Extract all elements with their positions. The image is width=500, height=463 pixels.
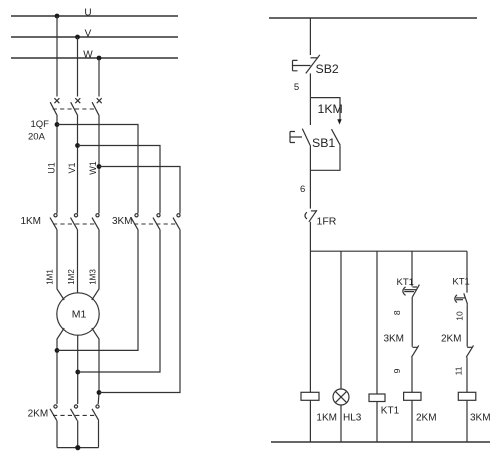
node motor lead 1 bbox=[55, 348, 60, 353]
node U tap bbox=[55, 14, 60, 19]
svg-text:10: 10 bbox=[454, 311, 464, 321]
breaker 1QF pole 3 bbox=[92, 98, 102, 116]
wire W drop bbox=[98, 58, 100, 97]
svg-text:5: 5 bbox=[294, 82, 299, 93]
breaker 1QF pole 2 bbox=[71, 98, 81, 116]
wire KT1 branch bbox=[376, 251, 378, 394]
svg-text:SB1: SB1 bbox=[312, 136, 335, 150]
node V tap bbox=[75, 35, 80, 40]
control bus bottom bbox=[271, 441, 490, 443]
wire motor to 2KM pole1 bbox=[57, 328, 64, 404]
svg-text:U: U bbox=[84, 8, 91, 19]
svg-text:W: W bbox=[83, 50, 93, 61]
contactor 1KM pole 1 bbox=[50, 214, 57, 230]
svg-text:1M1: 1M1 bbox=[46, 269, 55, 285]
wire 1KM pole2 to motor bbox=[77, 229, 79, 292]
motor M1 bbox=[57, 293, 99, 335]
contactor 1KM linkage bbox=[53, 223, 96, 225]
wire 2KM pole2 down bbox=[77, 421, 79, 448]
wire 2KM pole3 down bbox=[98, 421, 100, 448]
node U1 bbox=[55, 122, 60, 127]
contactor 3KM linkage bbox=[134, 223, 177, 225]
button SB1 (NO start) bbox=[290, 98, 311, 147]
wire 2KM branch top bbox=[411, 251, 413, 286]
svg-text:2KM: 2KM bbox=[441, 334, 462, 345]
svg-text:V: V bbox=[85, 29, 92, 40]
button SB2 (NC stop) bbox=[293, 55, 320, 74]
relay contact 1FR (NC) bbox=[305, 210, 317, 222]
contactor 2KM pole 2 bbox=[71, 405, 78, 421]
svg-text:KT1: KT1 bbox=[397, 277, 414, 288]
wire 3KM pole1 return bbox=[57, 229, 138, 350]
lamp HL3 bbox=[333, 389, 349, 405]
timer contact KT1 (delayed close NO) bbox=[455, 293, 468, 304]
wire motor to 2KM pole2 bbox=[77, 335, 79, 404]
contactor 3KM pole 2 bbox=[153, 214, 160, 230]
svg-text:1KM: 1KM bbox=[20, 216, 41, 227]
svg-text:1M3: 1M3 bbox=[89, 269, 98, 285]
control bus top bbox=[269, 17, 477, 19]
star point junction bbox=[75, 445, 80, 450]
contactor 3KM pole 3 bbox=[173, 214, 180, 230]
svg-text:V1: V1 bbox=[67, 162, 77, 173]
wire V1 segment bbox=[77, 116, 79, 214]
wire 9 segment bbox=[411, 357, 413, 392]
wire KT1 coil to bus bbox=[376, 402, 378, 443]
svg-text:M1: M1 bbox=[72, 309, 87, 321]
wire V1 branch to 3KM pole2 bbox=[78, 146, 161, 214]
wire 1FR down bbox=[309, 222, 311, 392]
wire 3KM pole2 return bbox=[78, 229, 160, 372]
wire 8 segment bbox=[411, 297, 413, 347]
svg-text:1FR: 1FR bbox=[317, 215, 337, 227]
svg-text:W1: W1 bbox=[88, 161, 98, 175]
wire SB2 to node 5 bbox=[309, 73, 311, 97]
svg-text:1M2: 1M2 bbox=[67, 269, 76, 285]
wire 10 segment bbox=[466, 304, 468, 346]
svg-text:SB2: SB2 bbox=[316, 62, 339, 76]
svg-text:3KM: 3KM bbox=[383, 334, 404, 345]
svg-text:KT1: KT1 bbox=[452, 277, 469, 288]
wire 2KM pole1 down bbox=[56, 421, 58, 448]
coil KT1 bbox=[369, 394, 385, 402]
wire 3KM pole3 return bbox=[99, 229, 180, 392]
svg-text:6: 6 bbox=[300, 184, 305, 195]
wire 3KM coil to bus bbox=[466, 400, 468, 442]
node motor lead 3 bbox=[97, 390, 102, 395]
svg-text:HL3: HL3 bbox=[343, 412, 362, 423]
coil 1KM bbox=[301, 392, 319, 400]
svg-text:20A: 20A bbox=[28, 131, 46, 142]
contactor 3KM pole 1 bbox=[131, 214, 138, 230]
node W tap bbox=[97, 56, 102, 61]
coil 3KM bbox=[458, 392, 476, 400]
wire branch to 1KM aux bbox=[310, 98, 340, 120]
svg-text:1KM: 1KM bbox=[318, 102, 343, 116]
svg-text:KT1: KT1 bbox=[381, 405, 400, 416]
svg-text:1QF: 1QF bbox=[31, 119, 50, 130]
wire HL3 to bus bbox=[340, 405, 342, 442]
wire 3KM branch top bbox=[466, 251, 468, 293]
svg-text:8: 8 bbox=[392, 310, 402, 315]
wire 1KM coil to bus bbox=[309, 400, 311, 442]
svg-text:2KM: 2KM bbox=[416, 412, 437, 423]
svg-text:U1: U1 bbox=[47, 162, 57, 174]
wire bus to SB2 bbox=[309, 18, 311, 55]
svg-text:3KM: 3KM bbox=[112, 216, 133, 227]
breaker 1QF pole 1 bbox=[50, 98, 59, 116]
wire 11 segment bbox=[466, 357, 468, 392]
wire HL3 branch bbox=[340, 251, 342, 389]
node W1 bbox=[97, 164, 102, 169]
wire V drop bbox=[77, 37, 79, 97]
svg-text:1KM: 1KM bbox=[316, 412, 337, 423]
node motor lead 2 bbox=[75, 370, 80, 375]
wire U1 branch to 3KM pole1 bbox=[57, 125, 138, 214]
bus V bbox=[11, 36, 178, 38]
wire SB1 to node 6 bbox=[309, 146, 311, 208]
wire U drop bbox=[56, 16, 58, 97]
bus W bbox=[11, 57, 178, 59]
coil 2KM bbox=[404, 392, 421, 400]
control distribution line bbox=[310, 250, 467, 252]
wire motor to 2KM pole3 bbox=[92, 328, 99, 404]
wire 1KM pole1 to motor bbox=[57, 229, 64, 300]
breaker 1QF linkage bbox=[53, 108, 96, 110]
contact 3KM (NC interlock) bbox=[412, 345, 419, 357]
contactor 2KM pole 1 bbox=[50, 405, 57, 421]
node V1 bbox=[75, 143, 80, 148]
timer contact KT1 (delayed open NC) bbox=[403, 285, 420, 297]
svg-text:9: 9 bbox=[392, 368, 402, 373]
wire U1 segment bbox=[56, 116, 58, 214]
contactor 1KM pole 3 bbox=[92, 214, 99, 230]
bus U bbox=[11, 15, 178, 17]
contactor 1KM pole 2 bbox=[71, 214, 78, 230]
svg-text:3KM: 3KM bbox=[470, 412, 491, 423]
wire W1 branch to 3KM pole3 bbox=[99, 167, 180, 214]
contactor 2KM pole 3 bbox=[92, 405, 99, 421]
wire 2KM coil to bus bbox=[411, 400, 413, 442]
svg-text:2KM: 2KM bbox=[28, 408, 49, 419]
contact 1KM aux (self hold) bbox=[332, 119, 342, 145]
wire 1KM aux down bbox=[310, 145, 340, 170]
svg-text:11: 11 bbox=[454, 366, 464, 375]
wire 1KM pole3 to motor bbox=[92, 229, 99, 300]
wire W1 segment bbox=[98, 116, 100, 214]
star shorting bar bbox=[57, 447, 99, 449]
contact 2KM (NC interlock) bbox=[466, 345, 473, 357]
contactor 2KM linkage bbox=[53, 414, 95, 416]
